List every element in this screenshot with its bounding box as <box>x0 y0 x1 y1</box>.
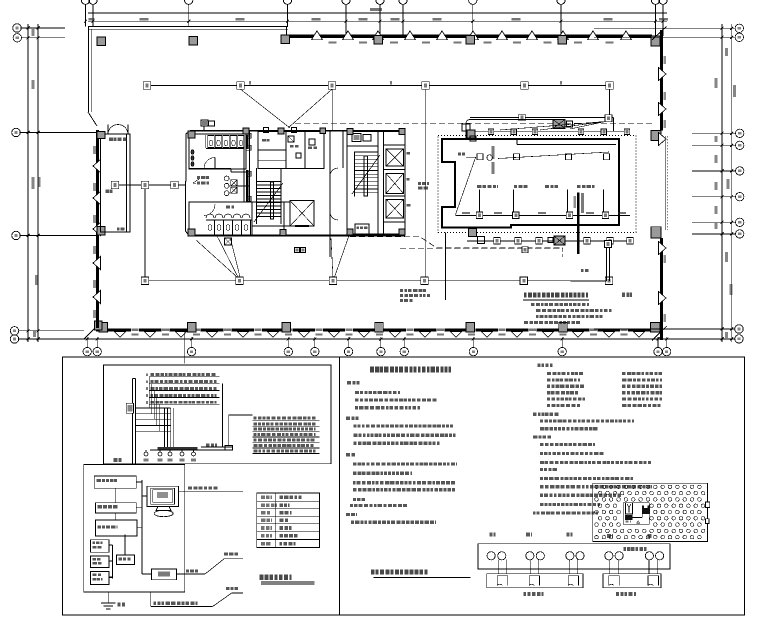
wall: top-left double line <box>88 26 288 28</box>
riser right cable labels <box>253 420 320 422</box>
riser bus taps <box>136 407 171 409</box>
UPS box <box>152 569 177 580</box>
dashed floor-above outline lower <box>350 237 563 248</box>
grid bubble N (left) <box>13 34 21 42</box>
wire: box1-box2 connector <box>115 488 117 503</box>
detail: cabinet black blocks <box>642 505 650 514</box>
grid bubble M (bottom) <box>662 347 670 355</box>
ctrl 24V box <box>117 555 135 565</box>
wall: corridor dark segment 2 <box>246 135 249 149</box>
detail: cabinet label in box <box>623 547 626 551</box>
top strip dimension labels <box>329 41 337 43</box>
wire: vertical drop x=425.7 <box>425 89 427 277</box>
wire: vertical drop x=332.7 <box>332 89 334 130</box>
detail: hatched cabinet plate <box>593 483 708 541</box>
detector marker 5 on lower trunk <box>421 277 429 285</box>
bottom dimension ticks <box>86 338 89 341</box>
detector marker 5 on lower trunk <box>236 277 244 285</box>
ctrl trunk line <box>141 480 143 574</box>
mid room arrow symbol <box>193 179 199 184</box>
grid bubble E (right) <box>736 218 744 226</box>
fixture X-box 2 <box>231 187 237 193</box>
ctrl small box a <box>91 540 109 553</box>
wire: segment count digits <box>249 81 251 84</box>
detail: cabinet side tabs <box>706 502 710 508</box>
grid bubble 18 (bottom) <box>558 347 566 355</box>
ground label <box>117 603 120 607</box>
wall: equipment room thick outline <box>442 139 619 228</box>
ctrl box 2 <box>96 503 137 513</box>
wire: dashed below equipment room <box>400 247 563 249</box>
wall: bottom-right corner <box>652 326 667 341</box>
detail: conduit hooks and drops <box>497 559 499 573</box>
wire: UPS output <box>176 573 205 575</box>
riser top cable labels <box>149 376 219 378</box>
detail: terminal box <box>478 544 670 569</box>
junction box 4 <box>605 115 612 122</box>
wall: top-right corner diagonal <box>652 27 667 40</box>
elevator bank inner wall <box>377 132 379 234</box>
detail: cabinet tiny label <box>626 520 629 522</box>
wall: top edge connector <box>286 27 288 37</box>
riser connector riser <box>228 415 230 446</box>
detector marker L on lower trunk <box>520 277 528 285</box>
wire: stub at left of equipment room <box>465 127 467 139</box>
wall: left upper double line <box>87 27 89 113</box>
room: elevator bank outer <box>347 132 405 234</box>
wire: monitor output <box>178 490 243 492</box>
stair 1 treads <box>257 181 282 183</box>
detector marker 5 on upper trunk <box>237 82 245 90</box>
wire: diagonal to cluster <box>241 89 291 128</box>
marker above riser <box>605 241 612 248</box>
detector marker + on upper trunk <box>143 82 151 90</box>
grid bubble 16 (bottom) <box>469 347 477 355</box>
grid bubble B (left) <box>10 327 18 335</box>
grid bubble M (top) <box>659 0 667 4</box>
grid bubble M+ (left) <box>13 24 21 32</box>
toilet B stalls <box>206 219 252 221</box>
riser bus bars <box>132 378 134 464</box>
wire: monitor link <box>142 495 147 497</box>
right dimension verticals <box>721 24 723 342</box>
wire: leader lines below core <box>217 236 238 277</box>
toilet A door arc <box>204 158 215 169</box>
markers below equipment room <box>494 238 501 245</box>
column right wall lower <box>651 227 661 239</box>
cable riser thick line <box>577 193 579 255</box>
text: notes heading 6 <box>533 413 536 416</box>
text: notes para 7 lower (over plate) <box>540 485 544 488</box>
corridor device boxes <box>246 133 251 138</box>
wall: right hatched edge lower <box>660 238 663 324</box>
grid bubble N (bottom) <box>284 347 292 355</box>
text: notes heading 1 <box>347 381 351 384</box>
smoke detector marker <box>141 181 149 189</box>
grid bubble 4 (top) <box>376 0 384 4</box>
wire: lobby wall extension <box>329 236 331 258</box>
wire: equipment diagonal <box>455 158 476 216</box>
room: annex label lower <box>117 227 120 230</box>
elevator A door <box>295 225 309 227</box>
detector marker V on upper trunk <box>606 82 614 90</box>
wire: drop from junction <box>613 118 615 132</box>
stair 2 break line <box>352 155 380 194</box>
wall: right glazed edge (dotted) <box>664 136 666 230</box>
riser connector line <box>201 446 232 448</box>
text: notes para 2 <box>353 424 356 427</box>
wire: box2-box3 connector <box>114 513 116 520</box>
wire: fan diagonals from junction 4 <box>500 122 606 131</box>
room: mid room labels <box>197 176 200 179</box>
bottom strip dimension labels <box>131 327 139 331</box>
grid bubble F (top) <box>342 0 350 4</box>
junction above equipment room <box>553 120 565 129</box>
plan title underline <box>523 299 589 301</box>
markers above equipment room <box>488 129 494 135</box>
legend symbols <box>261 496 265 500</box>
detector marker 4 on lower trunk <box>329 277 337 285</box>
text: notes heading 2 <box>346 417 350 420</box>
wire: leader from plan to riser <box>184 330 186 363</box>
left dimension verticals <box>27 24 29 342</box>
room: toilet B walls <box>189 201 252 203</box>
stair 1 break line <box>254 183 283 222</box>
wall: left hatched edge <box>96 130 99 328</box>
core: outer boundary <box>186 131 191 236</box>
marker on dashed line <box>522 247 528 253</box>
toilet B stall arcs <box>206 214 214 218</box>
equipment vertical label <box>491 146 494 159</box>
grid bubble 12 (bottom) <box>311 347 319 355</box>
wire: curved feed above equipment room <box>466 119 557 131</box>
text: plan title <box>524 292 527 297</box>
wire: line above equipment room <box>466 131 629 133</box>
grid bubble 20 (bottom) <box>654 347 662 355</box>
grid bubble S (top) <box>89 0 97 4</box>
wire: basin line <box>237 185 250 187</box>
right edge labels <box>664 56 667 64</box>
equipment marker circle <box>487 155 493 161</box>
grid bubble 6 (top) <box>399 0 407 4</box>
grid bubble S (bottom) <box>93 347 101 355</box>
detector marker L on upper trunk <box>521 82 529 90</box>
wire: riser to title <box>606 247 608 281</box>
detail: bracket box 2 <box>603 574 661 588</box>
monitor <box>147 486 178 506</box>
corner column bottom-right <box>651 323 661 333</box>
detail: terminal labels above <box>490 533 493 537</box>
right dimension labels <box>725 48 728 56</box>
top dimension line lower <box>88 20 667 22</box>
grid bubble B (right) <box>735 325 743 333</box>
wire: line below equipment room <box>467 240 632 242</box>
grid bubble N (top) <box>283 0 291 4</box>
text: notes para 3 <box>353 462 357 465</box>
grid bubble M (top) <box>81 0 89 4</box>
wire: UPS link <box>142 573 152 575</box>
fixture X-box 1 <box>231 180 237 186</box>
detail: terminal circles <box>487 552 495 560</box>
core mid room marks <box>288 136 294 142</box>
room: annex label 18F <box>106 190 109 193</box>
detector marker 4 on lower trunk <box>141 277 149 285</box>
elevator labels right <box>407 152 410 155</box>
room: toilet A walls <box>189 134 246 169</box>
text: notes heading 7 <box>533 435 537 438</box>
grid bubble H+ (right) <box>735 24 743 32</box>
column squares on bottom edge <box>99 323 108 333</box>
dashed floor-above outline <box>295 122 654 124</box>
wall: right hatched edge upper <box>660 30 663 131</box>
room: annex label <box>109 138 113 141</box>
grid bubble 6 (top) <box>469 0 477 4</box>
wire: ground feeder <box>150 592 152 607</box>
corner column top-right <box>651 36 660 46</box>
room: equipment room dotted boundary <box>438 136 636 233</box>
text: plan notes <box>531 303 535 306</box>
stair 1 rail <box>271 182 274 219</box>
wire: left branch line <box>112 184 186 186</box>
grid bubble M (bottom) <box>83 347 91 355</box>
elevator 1 <box>386 149 404 166</box>
riser drop bundle <box>164 408 166 448</box>
equipment bottom dim labels <box>462 212 470 214</box>
core: lobby verticals <box>323 131 325 168</box>
room: elevator A <box>290 201 314 227</box>
text: notes para 7 upper <box>540 443 544 446</box>
grid bubble H (right) <box>736 167 744 175</box>
overall dimension 52700 <box>370 8 382 11</box>
legend caption <box>260 575 264 580</box>
gray junction box below equipment room <box>469 229 477 237</box>
text: notes left of title <box>400 289 403 292</box>
grid bubble L (right) <box>736 129 744 137</box>
wall: equipment room inner shelf <box>517 144 616 146</box>
wall: corridor dark segment <box>246 170 249 202</box>
toilet B door arc <box>204 205 215 216</box>
equipment bracket lines <box>479 190 481 214</box>
stair 1 walls <box>256 168 258 224</box>
smoke detector marker <box>171 181 179 189</box>
wire: leader from equipment room <box>445 233 447 301</box>
wire: equipment long line <box>498 152 609 159</box>
equipment bottom markers <box>476 212 483 219</box>
grid bubble B (top) <box>185 0 193 4</box>
dashed outline vertical <box>561 248 563 257</box>
text: cable list left <box>547 372 551 375</box>
panel: riser diagram box <box>103 365 331 464</box>
wire: vertical drop x=609.5 <box>609 89 611 115</box>
cable riser label <box>581 193 584 213</box>
wall: left edge diagonal joint <box>88 112 97 126</box>
equipment text labels <box>477 185 481 188</box>
column at annex <box>97 132 105 139</box>
ctrl box 3 <box>96 520 138 536</box>
grid bubble 8 (top) <box>557 0 565 4</box>
grid bubble 14 (bottom) <box>377 347 385 355</box>
text: notes para 1 <box>355 391 359 394</box>
grid bubble G (right) <box>736 193 744 201</box>
junction cluster below equipment room <box>554 236 565 245</box>
grid bubble 15 (bottom) <box>400 347 408 355</box>
riser FB box <box>126 403 133 413</box>
detail: cabinet clear area <box>623 503 649 524</box>
ground symbol <box>107 592 109 603</box>
detail: cabinet fork box <box>626 503 633 514</box>
riser label drops <box>148 377 150 408</box>
top dimension labels <box>140 18 149 21</box>
arrow label <box>581 269 584 272</box>
toilet A urinal row <box>205 135 207 148</box>
detector marker 4 on lower trunk <box>605 277 613 285</box>
grid bubble H (right) <box>735 33 743 41</box>
room: core upper mid rooms <box>258 132 324 169</box>
column square left wall <box>97 227 105 236</box>
core mid-bottom walls <box>252 201 290 203</box>
corner detail bottom-left <box>84 324 99 339</box>
left dimension labels <box>32 29 35 36</box>
grid bubble 20 (top) <box>651 0 659 4</box>
riser floor bar <box>157 447 197 450</box>
ctrl box 1 <box>94 476 136 488</box>
elevator lobby bottom <box>355 224 369 234</box>
equipment row top markers <box>477 154 483 160</box>
text: notes heading 4 <box>346 513 350 516</box>
stair 2 rail <box>364 156 368 196</box>
wall: corridor verticals <box>243 135 245 202</box>
text: notes heading 5 cable list <box>538 364 541 367</box>
marker pair below core <box>295 248 300 253</box>
grid bubble L (left) <box>12 128 20 136</box>
panel: lower sheet outer box <box>63 357 745 615</box>
junction box on second trunk <box>519 114 526 121</box>
detail: bracket labels <box>524 592 527 596</box>
label near elevator bank <box>418 182 421 185</box>
text: notes para 6 <box>540 420 543 423</box>
wire: second trunk line <box>470 117 614 119</box>
toilet A fixtures left <box>191 150 194 154</box>
panel divider <box>338 357 340 615</box>
grid bubble B (bottom) <box>187 347 195 355</box>
riser floor devices <box>144 452 148 456</box>
ctrl connectors <box>136 481 142 483</box>
wire: equipment bottom line <box>456 214 630 216</box>
room: left annex walls <box>101 134 131 232</box>
lobby door arcs <box>330 168 338 176</box>
wire: riser right connector <box>222 384 224 447</box>
wire: upper trunk line <box>147 85 610 87</box>
room: annex door arcs <box>108 124 118 134</box>
panel: control room box <box>84 465 185 593</box>
wire: vertical drop x=145 <box>144 189 146 277</box>
column right wall upper <box>651 131 661 141</box>
wire: diagonal to cluster 2 <box>288 89 332 128</box>
equipment room label 998 <box>458 152 461 155</box>
toilet B label <box>226 206 230 209</box>
wall: top hatched strip (canopy) <box>286 35 652 38</box>
text: notes title <box>370 367 374 373</box>
stair 2 top room <box>347 145 378 147</box>
wire: arrow line to title <box>571 280 607 282</box>
grid bubble A (left) <box>10 335 18 343</box>
legend table <box>257 493 320 548</box>
grid bubble A (right) <box>735 335 743 343</box>
device boxes below core <box>225 238 232 245</box>
caption underline <box>374 577 471 579</box>
wire: lower trunk line <box>145 280 612 282</box>
column squares on top edge <box>97 37 106 46</box>
text: notes heading 3 <box>346 453 350 456</box>
detector marker 5 on upper trunk <box>422 82 430 90</box>
stair 2 treads <box>355 151 379 153</box>
elevator 2 <box>386 173 404 193</box>
core corner columns <box>188 131 195 138</box>
elevator 3 <box>386 199 404 218</box>
ctrl small box c <box>91 571 109 584</box>
text: cable list right <box>622 372 626 375</box>
wall: bottom hatched strip <box>96 328 660 331</box>
grid bubble 13 (bottom) <box>344 347 352 355</box>
riser floor label 16F <box>113 458 117 462</box>
detail: bracket box 1 <box>487 574 583 588</box>
wash basin circles <box>224 176 229 181</box>
ctrl small box b <box>91 556 109 568</box>
device boxes above core <box>201 120 208 126</box>
left edge labels <box>93 146 96 154</box>
wall: core divider <box>189 168 231 170</box>
detail: cabinet block links <box>632 517 642 519</box>
text: control room layout caption <box>371 570 374 575</box>
top dimension line upper <box>88 12 667 14</box>
smoke detector marker <box>111 181 119 189</box>
text: notes para 4 <box>351 521 354 524</box>
device box on core top <box>292 128 297 133</box>
grid bubble D (right) <box>736 230 744 238</box>
grid bubble Q (left) <box>12 231 20 239</box>
bottom dimension line <box>84 338 667 340</box>
grid bubble K (right) <box>736 141 744 149</box>
riser connector box <box>225 445 233 450</box>
detector marker 4 on upper trunk <box>328 82 336 90</box>
